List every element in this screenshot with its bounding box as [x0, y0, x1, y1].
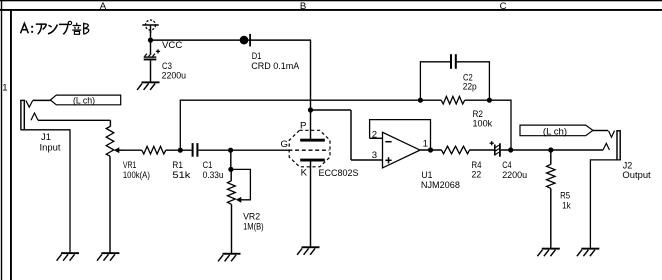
- wire R5 bottom: [550, 188, 552, 248]
- wire VR2 wiper loop: [231, 169, 251, 199]
- wire drop to pin3: [350, 110, 352, 160]
- wire VR1 top: [109, 120, 111, 126]
- border inner top line: [0, 9, 662, 11]
- svg-text:2200u: 2200u: [162, 70, 186, 81]
- ground under J1: [57, 252, 79, 261]
- svg-text:B: B: [300, 1, 306, 12]
- svg-text:K: K: [301, 168, 308, 179]
- junction R2 right node: [487, 98, 492, 103]
- wire R2C2 to output line: [489, 100, 511, 150]
- wire plate node right: [311, 109, 352, 111]
- svg-text:J1: J1: [41, 132, 51, 143]
- svg-text:2200u: 2200u: [502, 170, 527, 181]
- wire into op-amp pin3: [351, 159, 383, 161]
- power symbol VCC: [142, 20, 158, 33]
- wire J2 sleeve: [590, 160, 620, 248]
- op-amp U1: [383, 132, 421, 168]
- potentiometer VR1: [106, 127, 124, 157]
- tube cathode bar: [300, 159, 325, 162]
- potentiometer VR2: [228, 171, 242, 204]
- tube plate bar: [300, 139, 325, 142]
- border inner left line: [10, 9, 12, 280]
- svg-text:ECC802S: ECC802S: [319, 168, 359, 179]
- svg-text:CRD 0.1mA: CRD 0.1mA: [251, 61, 300, 72]
- junction C4 right node: [508, 147, 513, 152]
- ground under R5: [537, 248, 559, 257]
- border outer top line: [0, 0, 662, 1]
- junction R5 node: [548, 147, 553, 152]
- wire J1 tip to flag: [33, 99, 51, 101]
- wire flag to J2 tip: [593, 130, 608, 132]
- wire C4 to J2: [501, 149, 603, 151]
- svg-text:1: 1: [2, 82, 7, 93]
- resistor R5: [547, 164, 555, 188]
- J1 tip contact: [26, 101, 33, 108]
- svg-text:22: 22: [472, 170, 482, 181]
- svg-text:G: G: [281, 139, 288, 150]
- J1 ring contact: [31, 113, 38, 120]
- svg-text:A: A: [100, 1, 107, 12]
- wire C2 branch: [420, 62, 489, 100]
- wire grid node to VR2: [230, 150, 232, 169]
- wire rail drop to plate node: [310, 40, 312, 110]
- svg-text:22p: 22p: [463, 81, 477, 92]
- capacitor C4: [490, 141, 501, 157]
- net flag (L ch) output: [520, 125, 593, 136]
- diode D1 CRD: [240, 34, 251, 47]
- resistor R1: [142, 146, 166, 154]
- junction plate node: [308, 107, 313, 112]
- svg-text:C: C: [500, 1, 507, 12]
- ground under C3: [137, 81, 159, 90]
- svg-text:0.33u: 0.33u: [203, 170, 224, 181]
- svg-text:VCC: VCC: [162, 40, 182, 51]
- capacitor C1: [192, 143, 199, 157]
- junction node C1-grid: [228, 148, 233, 153]
- junction output node: [428, 147, 433, 152]
- wire R1 to C1: [166, 149, 192, 151]
- wire VR1 bottom: [109, 156, 111, 252]
- title text A:Amp-bu: [21, 21, 89, 34]
- junction VR2 top node: [228, 167, 233, 172]
- wire pin2 stub: [370, 137, 383, 139]
- wire R2 left stub: [420, 99, 441, 101]
- svg-text:NJM2068: NJM2068: [421, 180, 460, 191]
- wire plate: [310, 110, 312, 139]
- ground under cathode: [297, 246, 319, 255]
- wire R4 to C4: [470, 149, 495, 151]
- wire J1 sleeve: [21, 130, 70, 253]
- svg-text:3: 3: [372, 150, 377, 161]
- wire C1 to grid node: [198, 149, 290, 151]
- wire feedback riser: [180, 100, 420, 150]
- svg-text:100k(A): 100k(A): [123, 170, 150, 181]
- connector J1 body: [20, 100, 25, 130]
- svg-text:1: 1: [423, 139, 428, 150]
- capacitor C2: [450, 54, 457, 69]
- connector J2 body: [616, 130, 620, 160]
- resistor R2: [441, 96, 465, 104]
- wire VCC stem: [150, 30, 152, 40]
- resistor R4: [442, 146, 470, 154]
- wire R2 right stub: [465, 99, 490, 101]
- svg-text:51k: 51k: [172, 170, 190, 181]
- junction node R1-C1: [178, 148, 183, 153]
- J2 tip contact: [609, 131, 615, 138]
- wire R5 top: [550, 150, 552, 164]
- svg-text:1M(B): 1M(B): [243, 222, 264, 233]
- svg-text:Input: Input: [40, 142, 61, 153]
- tube grid dashes: [288, 149, 329, 151]
- ground under J2: [577, 248, 599, 257]
- wire cathode to ground: [310, 162, 312, 247]
- wire VR2 bottom: [231, 204, 233, 253]
- svg-text:(L ch): (L ch): [543, 126, 567, 137]
- svg-text:1k: 1k: [562, 201, 571, 212]
- svg-text:(L ch): (L ch): [73, 95, 95, 106]
- wire op-amp output: [420, 149, 442, 151]
- svg-text:100k: 100k: [473, 119, 493, 130]
- junction VCC node: [148, 38, 153, 43]
- capacitor C3: [144, 49, 160, 60]
- J2 ring contact: [603, 143, 610, 150]
- wire J1 ring to VR1: [38, 119, 110, 121]
- tube U2 envelope ECC802S: [289, 130, 330, 167]
- ground under VR1: [97, 252, 119, 261]
- wire VCC rail: [151, 39, 312, 41]
- wire C3 to ground: [150, 60, 152, 81]
- border outer left line: [1, 0, 2, 280]
- ground under VR2: [218, 253, 240, 261]
- wire VCC to C3: [150, 40, 152, 54]
- wire feedback box: [370, 120, 431, 150]
- wire VR1 wiper to R1: [124, 149, 142, 151]
- junction R2 left node: [418, 98, 423, 103]
- svg-text:Output: Output: [622, 170, 651, 181]
- net flag (L ch) input: [50, 95, 120, 105]
